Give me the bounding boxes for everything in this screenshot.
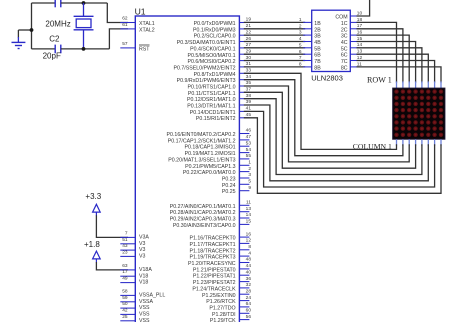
svg-text:59: 59 <box>122 295 128 301</box>
svg-text:P0.16/EINT0/MAT0.2/CAP0.2: P0.16/EINT0/MAT0.2/CAP0.2 <box>167 132 236 138</box>
svg-text:20pF: 20pF <box>43 52 61 61</box>
svg-text:28: 28 <box>246 288 252 294</box>
svg-text:37: 37 <box>246 87 252 93</box>
svg-text:XTAL2: XTAL2 <box>139 27 155 33</box>
svg-text:3: 3 <box>299 30 302 36</box>
svg-text:44: 44 <box>246 263 252 269</box>
svg-text:P0.22/CAP0.0/MAT0.0: P0.22/CAP0.0/MAT0.0 <box>183 170 236 176</box>
wire P0.13 to matrix column pin 6 <box>244 105 428 181</box>
U1 pin 59 VSSA <box>120 295 153 305</box>
svg-text:7C: 7C <box>341 59 348 65</box>
U1 pin 60 P1.28/TDI <box>212 308 251 318</box>
svg-text:P0.2/SCL/CAP0.0: P0.2/SCL/CAP0.0 <box>194 34 236 40</box>
wire top net XTAL1 left segment <box>32 2 56 4</box>
ULN2803 pin 17 2C <box>341 23 363 33</box>
svg-text:8B: 8B <box>314 65 321 71</box>
U1 pin 5 P0.24 <box>222 179 251 189</box>
wire P0.7 to ULN 8B <box>244 66 305 68</box>
svg-text:5: 5 <box>248 179 251 185</box>
U1 pin 17 V18 <box>120 269 148 279</box>
svg-text:42: 42 <box>122 307 128 313</box>
ground symbol <box>17 30 19 38</box>
node junction bottom <box>82 47 86 51</box>
svg-text:31: 31 <box>246 61 252 67</box>
svg-text:61: 61 <box>122 22 128 28</box>
U1 pin 24 P1.26/RTCK <box>206 295 251 305</box>
wire XTAL1 to U1 <box>107 3 128 23</box>
U1 pin 22 P0.2/SCL/CAP0.0 <box>194 29 252 39</box>
svg-text:V18: V18 <box>139 273 148 279</box>
svg-text:P0.4/SCK0/CAP0.1: P0.4/SCK0/CAP0.1 <box>190 46 236 52</box>
svg-text:12: 12 <box>246 238 252 244</box>
svg-text:14: 14 <box>246 212 252 218</box>
wire P0.1 to ULN 2B <box>244 28 305 30</box>
svg-text:48: 48 <box>246 257 252 263</box>
U1 pin 31 P0.7/SSEL0/PWM2/EINT2 <box>173 61 251 71</box>
svg-text:VSS: VSS <box>139 318 150 322</box>
svg-text:VSS: VSS <box>139 305 150 311</box>
U1 pin 48 P1.20/TRACESYNC <box>188 257 251 267</box>
svg-text:4C: 4C <box>341 40 348 46</box>
svg-text:P0.0/TxD0/PWM1: P0.0/TxD0/PWM1 <box>194 21 236 27</box>
svg-text:2: 2 <box>248 166 251 172</box>
svg-text:P0.25: P0.25 <box>222 189 236 195</box>
svg-text:3: 3 <box>248 172 251 178</box>
wire P0.4 to ULN 5B <box>244 47 305 49</box>
U1 pin 35 P0.10/RTS1/CAP1.0 <box>188 80 252 90</box>
svg-text:1B: 1B <box>314 21 321 27</box>
node junction ground tap <box>30 28 34 32</box>
ULN2803 pin 15 4C <box>341 36 363 46</box>
svg-text:33: 33 <box>246 68 252 74</box>
wire P0.14 to matrix column pin 7 <box>244 111 435 187</box>
U1 pin 25 VSS <box>120 314 150 322</box>
svg-text:P0.29/AIN2/CAP0.3/MAT0.3: P0.29/AIN2/CAP0.3/MAT0.3 <box>170 217 236 223</box>
svg-text:4: 4 <box>299 36 302 42</box>
svg-text:45: 45 <box>246 112 252 118</box>
svg-text:P0.5/MISO0/MAT0.1: P0.5/MISO0/MAT0.1 <box>188 53 236 59</box>
ULN2803 pin 3 3B <box>299 30 321 40</box>
U1 pin 12 P1.17/TRACEPKT1 <box>189 238 251 248</box>
svg-text:+3.3: +3.3 <box>85 192 101 201</box>
svg-text:P0.6/MOSI0/CAP0.2: P0.6/MOSI0/CAP0.2 <box>187 59 235 65</box>
svg-text:P1.28/TDI: P1.28/TDI <box>212 312 236 318</box>
svg-text:P0.12/DSR1/MAT1.0: P0.12/DSR1/MAT1.0 <box>187 97 236 103</box>
svg-text:7: 7 <box>125 230 128 236</box>
U1 pin 64 P1.27/TDO <box>209 301 251 311</box>
svg-text:XTAL1: XTAL1 <box>139 21 155 27</box>
wire P0.12 to matrix column pin 5 <box>244 99 422 175</box>
U1 pin 37 P0.11/CTS1/CAP1.1 <box>188 87 251 97</box>
ULN2803 pin 1 1B <box>299 17 321 27</box>
U1 pin 45 P0.15/RI1/EINT2 <box>196 112 251 122</box>
wire ULN 7C to matrix row pin 7 <box>357 61 435 83</box>
U1 pin 27 P0.4/SCK0/CAP0.1 <box>190 42 251 52</box>
U1 pin 55 P0.20/MAT1.3/SSEL1/EINT3 <box>168 153 251 163</box>
U1 pin 42 VSS <box>120 307 150 317</box>
U1 pin 54 P0.19/MAT1.2/MOSI1 <box>185 147 252 157</box>
svg-text:RST: RST <box>139 46 150 52</box>
svg-text:57: 57 <box>122 41 128 47</box>
ULN2803 pin 10 COM <box>335 10 362 20</box>
svg-text:P0.15/RI1/EINT2: P0.15/RI1/EINT2 <box>196 116 236 122</box>
svg-text:V3A: V3A <box>139 235 149 241</box>
svg-text:2: 2 <box>299 23 302 29</box>
svg-text:+1.8: +1.8 <box>84 240 100 249</box>
svg-text:P0.19/MAT1.2/MOSI1: P0.19/MAT1.2/MOSI1 <box>185 151 236 157</box>
svg-text:ULN2803: ULN2803 <box>311 74 343 83</box>
svg-text:9: 9 <box>248 185 251 191</box>
svg-text:8C: 8C <box>341 65 348 71</box>
U1 pin 28 P1.25/EXTIN0 <box>202 288 251 298</box>
svg-text:COM: COM <box>335 15 347 21</box>
svg-text:34: 34 <box>246 74 252 80</box>
U1 pin 62 XTAL1 <box>120 16 154 28</box>
U1 pin 29 P0.5/MISO0/MAT0.1 <box>188 49 252 59</box>
svg-text:60: 60 <box>246 308 252 314</box>
svg-text:54: 54 <box>246 147 252 153</box>
svg-text:P1.24/TRACECLK: P1.24/TRACECLK <box>192 286 236 292</box>
LED matrix DM1 body <box>393 88 445 139</box>
ULN2803 pin 16 3C <box>341 30 363 40</box>
wire P0.0 to ULN 1B <box>244 21 305 23</box>
svg-text:P0.24: P0.24 <box>222 183 236 189</box>
svg-text:V3: V3 <box>139 254 146 260</box>
svg-text:6: 6 <box>299 49 302 55</box>
U1 pin 34 P0.9/RxD1/PWM6/EINT3 <box>177 74 252 84</box>
svg-text:55: 55 <box>246 153 252 159</box>
wire +1.8 to V18A pin 63 <box>96 262 128 270</box>
svg-text:35: 35 <box>246 80 252 86</box>
wire ULN 1C to matrix row pin 1 <box>357 22 397 82</box>
U1 pin 39 P0.13/DTR1/MAT1.1 <box>187 99 251 109</box>
U1 pin 4 P1.19/TRACEPKT3 <box>189 250 251 260</box>
svg-text:P0.13/DTR1/MAT1.1: P0.13/DTR1/MAT1.1 <box>187 104 235 110</box>
wire P0.3 to ULN 4B <box>244 41 305 43</box>
svg-text:VSS: VSS <box>139 312 150 318</box>
U1 pin 61 XTAL2 <box>120 22 154 34</box>
ULN2803 pin 2 2B <box>299 23 321 33</box>
U1 pin 14 P0.29/AIN2/CAP0.3/MAT0.3 <box>170 212 252 222</box>
wire P0.6 to ULN 7B <box>244 60 305 62</box>
svg-text:62: 62 <box>122 16 128 22</box>
ULN2803 pin 11 8C <box>341 61 362 71</box>
wire ULN 4C to matrix row pin 4 <box>357 42 416 83</box>
U1 pin 15 P0.30/AIN3/EINT3/CAP0.0 <box>173 219 251 229</box>
svg-text:P1.17/TRACEPKT1: P1.17/TRACEPKT1 <box>189 242 235 248</box>
U1 pin 44 P1.21/PIPESTAT0 <box>193 263 251 273</box>
svg-text:1: 1 <box>299 17 302 23</box>
wire top net XTAL1 right segment <box>61 2 108 4</box>
U1 pin 33 P0.8/TxD1/PWM4 <box>194 68 252 78</box>
U1 pin 7 V3A <box>120 230 149 240</box>
svg-text:17: 17 <box>122 269 128 275</box>
svg-text:38: 38 <box>246 93 252 99</box>
svg-text:49: 49 <box>122 276 128 282</box>
driver U2 ULN2803 body <box>312 10 351 71</box>
wire P0.8 to matrix column pin 1 <box>244 73 397 149</box>
svg-text:P0.3/SDA/MAT0.0/EINT1: P0.3/SDA/MAT0.0/EINT1 <box>177 40 236 46</box>
wire COM to top edge <box>357 0 370 16</box>
ULN2803 pin 18 1C <box>341 17 363 27</box>
svg-text:4: 4 <box>248 250 251 256</box>
svg-text:5B: 5B <box>314 46 321 52</box>
capacitor C2 <box>54 45 56 54</box>
U1 pin 19 P0.0/TxD0/PWM1 <box>194 17 252 27</box>
svg-text:P0.21/PWM5/CAP1.3: P0.21/PWM5/CAP1.3 <box>185 164 236 170</box>
wire bottom net XTAL2 right segment <box>61 48 110 50</box>
svg-text:2C: 2C <box>341 27 348 33</box>
svg-text:6B: 6B <box>314 53 321 59</box>
svg-text:24: 24 <box>246 295 252 301</box>
wire bottom net XTAL2 left segment <box>32 48 56 50</box>
ULN2803 pin 12 7C <box>341 55 363 65</box>
ULN2803 pin 8 8B <box>299 62 321 72</box>
U1 pin 58 VSSA_PLL <box>120 288 165 298</box>
svg-text:P0.14/DCD1/EINT1: P0.14/DCD1/EINT1 <box>190 110 236 116</box>
U1 pin 8 P1.18/TRACEPKT2 <box>189 244 251 254</box>
svg-text:1C: 1C <box>341 21 348 27</box>
crystal X1 20MHz <box>83 3 85 16</box>
svg-text:46: 46 <box>246 128 252 134</box>
U1 pin 11 P0.27/AIN0/CAP0.1/MAT0.1 <box>170 200 252 210</box>
svg-text:P1.26/RTCK: P1.26/RTCK <box>206 299 236 305</box>
IC U1 body <box>135 16 239 322</box>
U1 pin 57 RST <box>120 41 150 53</box>
svg-text:7: 7 <box>299 55 302 61</box>
svg-text:2B: 2B <box>314 27 321 33</box>
power +3.3 symbol <box>93 204 101 212</box>
U1 pin 38 P0.12/DSR1/MAT1.0 <box>187 93 251 103</box>
svg-text:U1: U1 <box>135 7 146 17</box>
U1 pin 32 P1.24/TRACECLK <box>192 282 251 292</box>
wire P0.9 to matrix column pin 2 <box>244 80 403 156</box>
svg-text:5C: 5C <box>341 46 348 52</box>
wire XTAL2 to U1 <box>109 29 128 49</box>
ULN2803 pin 4 4B <box>299 36 321 46</box>
svg-text:P0.27/AIN0/CAP0.1/MAT0.1: P0.27/AIN0/CAP0.1/MAT0.1 <box>170 204 236 210</box>
svg-text:56: 56 <box>246 314 252 320</box>
LED matrix bottom pins <box>397 139 442 146</box>
ULN2803 pin 6 6B <box>299 49 321 59</box>
svg-text:V3: V3 <box>139 241 146 247</box>
U1 pin 30 P0.6/MOSI0/CAP0.2 <box>187 55 251 65</box>
U1 pin 41 P0.14/DCD1/EINT1 <box>190 106 252 116</box>
svg-text:11: 11 <box>246 200 251 206</box>
svg-text:43: 43 <box>122 243 128 249</box>
svg-text:P0.7/SSEL0/PWM2/EINT2: P0.7/SSEL0/PWM2/EINT2 <box>173 65 235 71</box>
svg-text:VSSA_PLL: VSSA_PLL <box>139 293 165 299</box>
wire ULN 8C to matrix row pin 8 <box>357 67 442 83</box>
svg-text:47: 47 <box>246 134 252 140</box>
svg-text:8: 8 <box>248 244 251 250</box>
ULN2803 pin 13 6C <box>341 49 363 59</box>
wire ULN 6C to matrix row pin 6 <box>357 54 429 82</box>
svg-text:16: 16 <box>246 231 252 237</box>
svg-text:P0.9/RxD1/PWM6/EINT3: P0.9/RxD1/PWM6/EINT3 <box>177 78 236 84</box>
ULN2803 pin 5 5B <box>299 42 321 52</box>
U1 pin 63 V18A <box>120 263 152 273</box>
U1 pin 26 P0.3/SDA/MAT0.0/EINT1 <box>177 36 252 46</box>
svg-text:32: 32 <box>246 282 252 288</box>
svg-text:51: 51 <box>122 237 128 243</box>
svg-text:36: 36 <box>246 276 252 282</box>
U1 pin 56 P1.29/TCK <box>210 314 251 322</box>
LED matrix top pins <box>397 81 442 88</box>
svg-text:53: 53 <box>246 140 252 146</box>
svg-text:P1.27/TDO: P1.27/TDO <box>209 305 235 311</box>
wire ULN 2C to matrix row pin 2 <box>357 29 403 83</box>
power +1.8 symbol <box>93 251 101 259</box>
wire P0.2 to ULN 3B <box>244 34 305 36</box>
wire ground tap <box>18 29 31 31</box>
svg-text:P1.25/EXTIN0: P1.25/EXTIN0 <box>202 293 236 299</box>
U1 pin 23 V3 <box>120 249 145 259</box>
svg-text:64: 64 <box>246 301 252 307</box>
svg-text:P0.11/CTS1/CAP1.1: P0.11/CTS1/CAP1.1 <box>188 91 236 97</box>
svg-text:P1.21/PIPESTAT0: P1.21/PIPESTAT0 <box>193 267 236 273</box>
svg-text:V3: V3 <box>139 247 146 253</box>
svg-text:P1.19/TRACEPKT3: P1.19/TRACEPKT3 <box>189 255 235 261</box>
U1 pin 16 P1.16/TRACEPKT0 <box>189 231 251 241</box>
U1 pin 3 P0.23 <box>222 172 251 182</box>
svg-text:P0.30/AIN3/EINT3/CAP0.0: P0.30/AIN3/EINT3/CAP0.0 <box>173 223 236 229</box>
svg-text:20MHz: 20MHz <box>45 19 70 28</box>
svg-text:C2: C2 <box>49 35 60 44</box>
capacitor C1 plates <box>54 0 56 7</box>
wire P0.15 to matrix column pin 8 <box>244 118 441 194</box>
svg-text:50: 50 <box>122 301 128 307</box>
svg-text:P0.10/RTS1/CAP1.0: P0.10/RTS1/CAP1.0 <box>188 85 236 91</box>
U1 pin 50 VSS <box>120 301 150 311</box>
svg-text:V18A: V18A <box>139 267 152 273</box>
svg-text:39: 39 <box>246 99 252 105</box>
U1 pin 36 P1.23/PIPESTAT2 <box>193 276 251 286</box>
U1 pin 9 P0.25 <box>222 185 251 195</box>
U1 pin 53 P0.18/CAP1.3/MISO1 <box>185 140 252 150</box>
svg-text:P0.28/AIN1/CAP0.2/MAT0.2: P0.28/AIN1/CAP0.2/MAT0.2 <box>170 210 236 216</box>
svg-text:58: 58 <box>122 288 128 294</box>
U1 pin 51 V3 <box>120 237 145 247</box>
U1 pin 21 P0.1/RxD0/PWM3 <box>193 23 251 33</box>
wire P0.11 to matrix column pin 4 <box>244 92 416 168</box>
ULN2803 pin 7 7B <box>299 55 321 65</box>
svg-text:P1.18/TRACEPKT2: P1.18/TRACEPKT2 <box>189 248 235 254</box>
svg-text:8: 8 <box>299 62 302 68</box>
svg-text:P0.17/CAP1.2/SCK1/MAT1.2: P0.17/CAP1.2/SCK1/MAT1.2 <box>168 138 236 144</box>
U1 pin 49 V18 <box>120 276 148 286</box>
wire +3.3 to V3A pin 7 <box>96 215 128 237</box>
U1 pin 1 P0.21/PWM5/CAP1.3 <box>185 160 251 170</box>
svg-text:3B: 3B <box>314 34 321 40</box>
svg-text:P1.29/TCK: P1.29/TCK <box>210 318 236 322</box>
svg-text:23: 23 <box>122 249 128 255</box>
svg-text:63: 63 <box>122 263 128 269</box>
svg-text:15: 15 <box>246 219 252 225</box>
svg-text:P0.18/CAP1.3/MISO1: P0.18/CAP1.3/MISO1 <box>185 145 236 151</box>
svg-text:P0.1/RxD0/PWM3: P0.1/RxD0/PWM3 <box>193 27 236 33</box>
U1 pin 40 P1.22/PIPESTAT1 <box>193 269 251 279</box>
svg-text:P1.22/PIPESTAT1: P1.22/PIPESTAT1 <box>193 274 236 280</box>
wire ULN 5C to matrix row pin 5 <box>357 48 422 83</box>
svg-text:P1.23/PIPESTAT2: P1.23/PIPESTAT2 <box>193 280 236 286</box>
wire P0.10 to matrix column pin 3 <box>244 86 409 162</box>
wire P0.5 to ULN 6B <box>244 53 305 55</box>
svg-text:P0.23: P0.23 <box>222 177 236 183</box>
U1 pin 43 V3 <box>120 243 145 253</box>
svg-text:13: 13 <box>246 206 252 212</box>
svg-text:P1.16/TRACEPKT0: P1.16/TRACEPKT0 <box>189 236 235 242</box>
svg-text:P1.20/TRACESYNC: P1.20/TRACESYNC <box>188 261 236 267</box>
svg-text:5: 5 <box>299 42 302 48</box>
svg-text:VSSA: VSSA <box>139 299 154 305</box>
U1 pin 13 P0.28/AIN1/CAP0.2/MAT0.2 <box>170 206 252 216</box>
ULN2803 pin 14 5C <box>341 42 363 52</box>
svg-text:25: 25 <box>122 314 128 320</box>
U1 pin 47 P0.17/CAP1.2/SCK1/MAT1.2 <box>168 134 252 144</box>
svg-text:1: 1 <box>248 160 251 166</box>
svg-text:P0.8/TxD1/PWM4: P0.8/TxD1/PWM4 <box>194 72 236 78</box>
svg-text:V18: V18 <box>139 280 148 286</box>
U1 pin 2 P0.22/CAP0.0/MAT0.0 <box>183 166 251 176</box>
svg-text:6C: 6C <box>341 53 348 59</box>
wire left vertical <box>31 3 33 49</box>
svg-text:40: 40 <box>246 269 252 275</box>
svg-text:41: 41 <box>246 106 252 112</box>
svg-text:4B: 4B <box>314 40 321 46</box>
svg-text:ROW 1: ROW 1 <box>367 76 392 85</box>
svg-text:7B: 7B <box>314 59 321 65</box>
U1 pin 46 P0.16/EINT0/MAT0.2/CAP0.2 <box>167 128 252 138</box>
svg-text:3C: 3C <box>341 34 348 40</box>
wire ULN 3C to matrix row pin 3 <box>357 35 410 83</box>
node junction top <box>82 1 86 5</box>
svg-text:P0.20/MAT1.3/SSEL1/EINT3: P0.20/MAT1.3/SSEL1/EINT3 <box>168 157 235 163</box>
